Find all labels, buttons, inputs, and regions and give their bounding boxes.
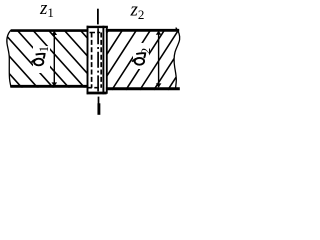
left gear break line (wavy left edge): [7, 30, 11, 88]
hatching right gear: [70, 29, 207, 90]
svg-text:1: 1: [36, 46, 51, 53]
hidden tooth line dashed horizontal top: [90, 32, 101, 34]
hidden tooth line dashed horizontal bottom: [87, 87, 101, 89]
centerline bottom dash: [98, 97, 100, 104]
svg-text:2: 2: [138, 48, 153, 55]
label b2 (rotated, hand-drawn glyph): [132, 53, 145, 65]
dimension arrow b2 bottom: [156, 83, 162, 87]
right gear bottom edge: [106, 87, 180, 90]
hidden tooth line dashed vertical right: [100, 33, 102, 88]
mesh zone rectangle left edge: [87, 26, 89, 95]
right gear top edge: [106, 29, 179, 32]
dimension arrow b2 top: [156, 31, 162, 35]
dimension line b2: [158, 32, 160, 87]
dimension arrow b1 top: [52, 31, 58, 35]
centerline top dash: [97, 9, 99, 25]
mesh zone rectangle top edge: [87, 26, 108, 28]
hidden tooth line dashed vertical left: [91, 33, 93, 88]
right gear left edge: [106, 27, 108, 94]
dimension line b1: [53, 32, 55, 85]
white gap behind b2 label: [133, 43, 149, 69]
centerline through mesh zone (dash-dot): [97, 28, 99, 92]
left gear top edge: [11, 29, 89, 32]
white gap behind b1 label: [33, 46, 50, 73]
mesh zone rectangle right edge: [102, 26, 104, 95]
right gear break line (wavy right edge): [174, 28, 180, 90]
mesh zone rectangle bottom edge: [87, 92, 107, 95]
label b1 (rotated, hand-drawn glyph): [32, 54, 45, 66]
dimension arrow b1 bottom: [52, 82, 58, 86]
left gear bottom edge: [10, 85, 88, 88]
centerline bottom thick dash: [97, 103, 100, 115]
hatching left gear: [0, 29, 133, 89]
